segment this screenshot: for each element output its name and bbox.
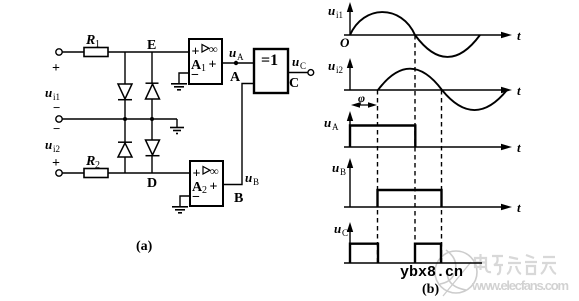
svg-text:i2: i2 — [336, 65, 343, 75]
resistor R2 — [84, 169, 108, 178]
wire T1 to R1 — [62, 51, 84, 53]
svg-text:A: A — [230, 70, 241, 85]
ground G2 (A1) — [171, 84, 187, 90]
XOR gate =1 — [254, 49, 288, 93]
dashed guide x=377.5 — [377, 90, 379, 263]
diode D2 stubs — [151, 52, 153, 119]
svg-text:C: C — [300, 61, 306, 71]
svg-text:A: A — [237, 52, 244, 62]
wire R2 to A2 (bottom wire, node D) — [108, 172, 190, 174]
svg-text:C: C — [289, 76, 299, 91]
svg-text:∞: ∞ — [209, 42, 218, 56]
op-amp U2 (A2) — [190, 161, 223, 206]
terminal T3 (ui2 +) — [56, 170, 62, 176]
svg-text:t: t — [517, 140, 521, 155]
diode D1 stubs — [124, 52, 126, 119]
wire T3 to R2 — [62, 172, 84, 174]
axis uC — [344, 225, 482, 263]
svg-text:u: u — [328, 3, 335, 18]
svg-text:i2: i2 — [53, 144, 60, 154]
svg-text:∞: ∞ — [210, 164, 219, 178]
wire uC: XOR out to terminal C — [288, 72, 308, 74]
op-amp U1 (A1) — [189, 39, 222, 84]
junction dot middle-right — [150, 117, 154, 121]
svg-text:B: B — [253, 177, 259, 187]
svg-text:+: + — [209, 58, 217, 73]
watermark chinese text 电子发烧友 (drawn strokes) — [475, 254, 556, 274]
svg-text:2: 2 — [95, 160, 100, 171]
svg-text:1: 1 — [201, 63, 206, 74]
terminal T1 (ui1 +) — [56, 49, 62, 55]
wire middle — [62, 118, 177, 120]
svg-text:B: B — [340, 167, 346, 177]
wire uA: A1 out to XOR — [222, 62, 254, 64]
diode D2 (upper-right, pointing up) — [146, 83, 160, 99]
svg-text:−: − — [191, 68, 199, 83]
uC pulse 1 — [350, 244, 378, 263]
svg-text:O: O — [340, 35, 350, 50]
svg-text:1: 1 — [95, 39, 100, 50]
resistor R1 — [84, 48, 108, 57]
ground G3 (A2) — [172, 207, 188, 213]
svg-text:t: t — [517, 200, 521, 215]
sine ui1 — [350, 12, 480, 57]
svg-text:t: t — [517, 28, 521, 43]
terminal T2 (common) — [56, 116, 62, 122]
uC pulse 2 — [415, 244, 441, 263]
diode D3 stubs — [124, 119, 126, 173]
svg-text:C: C — [342, 228, 348, 238]
svg-text:2: 2 — [202, 185, 207, 196]
svg-text:−: − — [192, 190, 200, 205]
dashed guide x=441.5 — [441, 90, 443, 263]
svg-text:−: − — [53, 100, 60, 115]
svg-text:u: u — [328, 58, 335, 73]
svg-text:u: u — [245, 170, 252, 185]
svg-text:(b): (b) — [422, 282, 439, 297]
node A (dot) — [234, 61, 238, 65]
svg-text:t: t — [517, 83, 521, 98]
phase phi arrow — [354, 104, 374, 106]
svg-text:u: u — [324, 115, 331, 130]
svg-text:R: R — [85, 33, 95, 48]
svg-text:u: u — [45, 137, 52, 152]
svg-text:u: u — [334, 221, 341, 236]
ground G1 (middle wire) — [170, 128, 184, 134]
svg-text:u: u — [229, 45, 236, 60]
diode D4 (lower-right, pointing down) — [146, 140, 160, 156]
wire uB: A2 out up to XOR — [223, 84, 254, 185]
axis ui2 — [344, 61, 503, 90]
wire R1 to A1 (top wire, node E) — [108, 51, 189, 53]
diode D3 (lower-left, pointing up) — [118, 142, 132, 157]
svg-text:A: A — [332, 122, 339, 132]
svg-text:+: + — [52, 156, 60, 171]
svg-text:R: R — [85, 154, 95, 169]
sine ui2 — [378, 69, 507, 110]
svg-text:ybx8.cn: ybx8.cn — [400, 264, 463, 281]
svg-text:=1: =1 — [261, 52, 278, 69]
svg-text:B: B — [234, 191, 243, 206]
svg-text:i1: i1 — [336, 10, 343, 20]
terminal C — [308, 70, 314, 76]
svg-text:φ: φ — [358, 91, 365, 105]
svg-text:u: u — [292, 54, 299, 69]
uB pulse — [378, 190, 442, 207]
dashed guide x=415 — [414, 35, 416, 263]
svg-text:u: u — [332, 160, 339, 175]
svg-text:D: D — [147, 176, 157, 191]
diode D4 stubs — [151, 119, 153, 173]
svg-text:(a): (a) — [136, 239, 153, 254]
uA pulse — [350, 126, 415, 148]
svg-text:−: − — [53, 121, 60, 136]
svg-text:www.elecfans.com: www.elecfans.com — [471, 278, 569, 293]
axis uA — [344, 114, 503, 147]
axis uB — [344, 161, 503, 207]
wire A2 inverting to ground G3 — [180, 196, 190, 206]
diode D1 (upper-left, pointing down) — [118, 84, 132, 100]
axis ui1 — [344, 5, 503, 35]
junction dot middle-left — [123, 117, 127, 121]
svg-text:+: + — [210, 180, 218, 195]
wire A1 inverting to ground G2 — [179, 73, 189, 83]
svg-text:u: u — [45, 85, 52, 100]
svg-text:E: E — [147, 38, 156, 53]
wire to ground G1 — [176, 119, 178, 127]
svg-text:+: + — [52, 61, 60, 76]
watermark logo circle — [435, 250, 477, 296]
